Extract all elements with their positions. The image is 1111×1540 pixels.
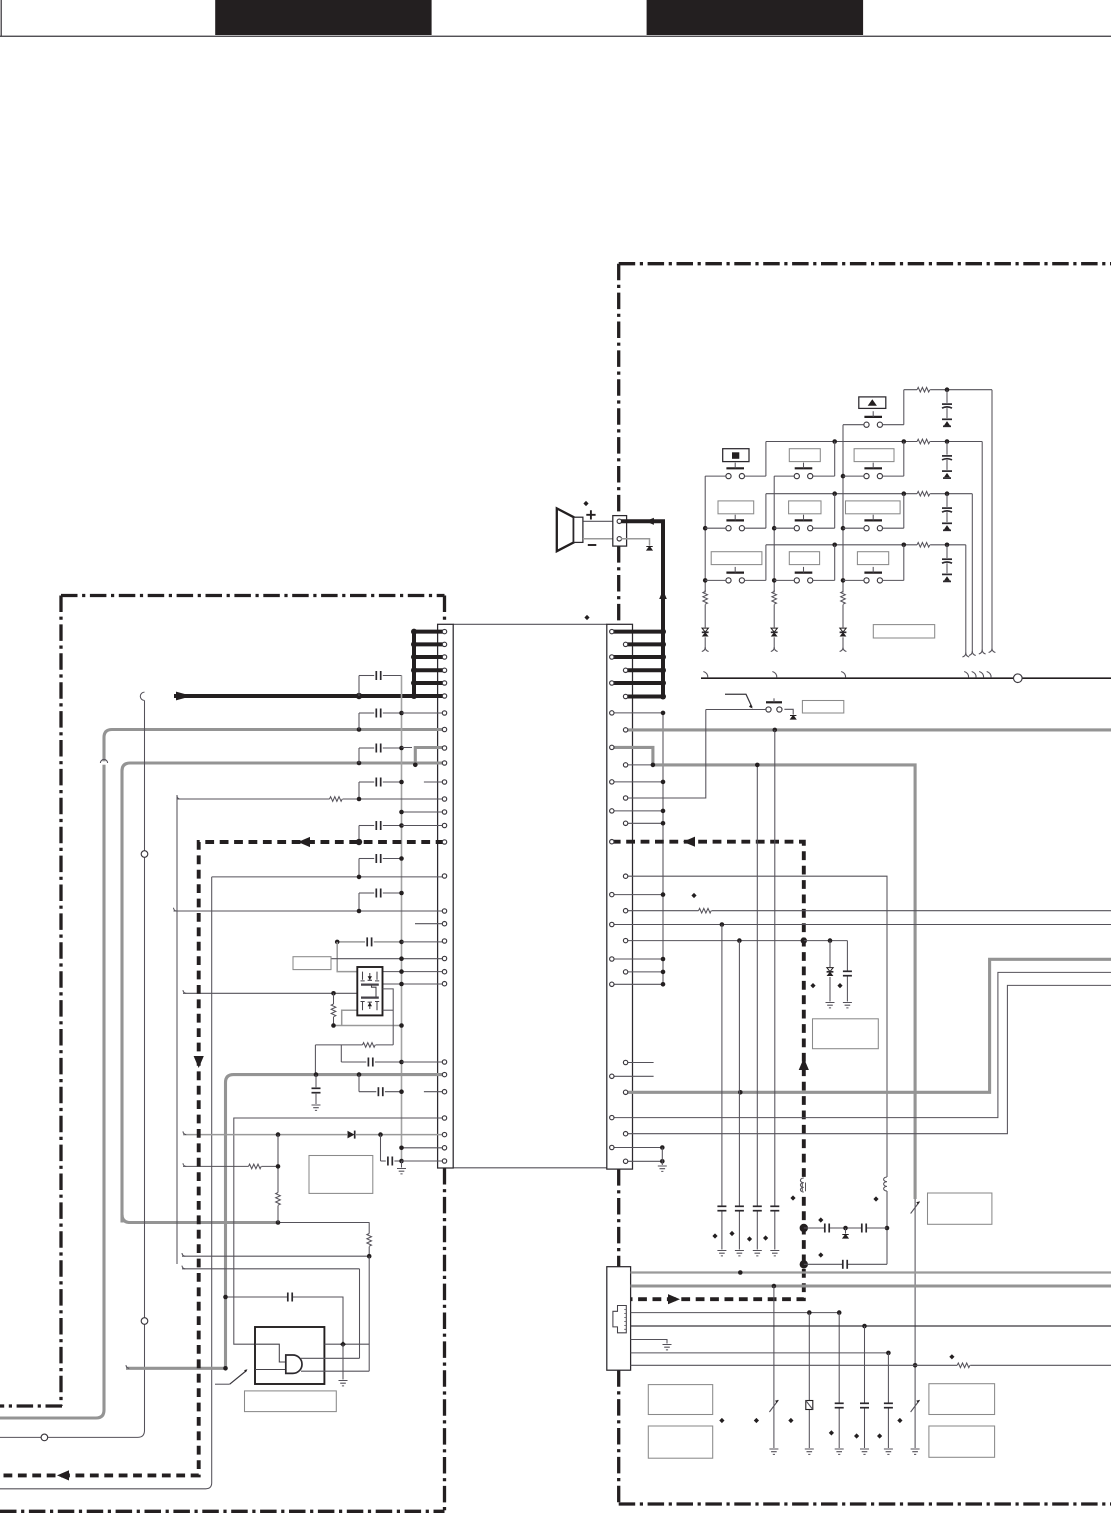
junction xyxy=(357,1072,362,1077)
diamond xyxy=(754,1418,759,1423)
junction xyxy=(411,680,417,686)
resistor below 993 xyxy=(333,993,335,1025)
junction xyxy=(837,1310,842,1315)
diamond xyxy=(747,1236,752,1241)
wire CN1-CN2 bottom link xyxy=(453,1167,607,1169)
switch r2c2 contacts xyxy=(794,474,799,479)
wire CN1 1118 xyxy=(234,1118,445,1344)
wire 1256 xyxy=(182,1255,369,1257)
wire CN3 1352 xyxy=(631,1352,889,1354)
label box xyxy=(929,1384,995,1415)
connector CN3 body xyxy=(607,1267,631,1371)
cap riser 359 xyxy=(358,1075,360,1092)
wire K1 right xyxy=(882,424,904,426)
cap riser xyxy=(358,713,360,730)
board A outline left step xyxy=(0,1404,62,1407)
CN2 pin xyxy=(623,642,627,646)
thick stub CN2 pin 2 xyxy=(626,642,663,646)
connector CN1 body xyxy=(438,624,454,1168)
key label box r3c3 xyxy=(846,501,901,514)
CN1 pin xyxy=(442,681,446,685)
junction xyxy=(399,711,404,716)
junction xyxy=(913,1363,918,1368)
thick stub CN1 pin 2 xyxy=(414,642,445,646)
wire CN2 894 xyxy=(612,894,663,896)
cap riser 341 xyxy=(340,1045,342,1062)
resistor xyxy=(917,541,930,548)
ground xyxy=(911,1449,920,1454)
ground xyxy=(884,1449,893,1454)
diamond xyxy=(873,1196,878,1201)
CN2 pin xyxy=(623,1159,627,1163)
wire 1044 xyxy=(315,1044,393,1046)
U1 top wire xyxy=(324,1343,369,1345)
junction xyxy=(314,1072,319,1077)
wire CN1 782 stub xyxy=(424,781,445,783)
Q1 loop entry xyxy=(383,1009,394,1011)
switch r2c3 actuator xyxy=(864,467,882,469)
junction xyxy=(902,439,907,444)
thick stub CN2 pin 6 xyxy=(626,695,663,699)
column tail xyxy=(704,637,706,647)
CN2 pin xyxy=(610,1145,614,1149)
hook xyxy=(969,651,972,655)
column tail xyxy=(842,637,844,647)
junction xyxy=(651,763,656,768)
transistor array Q1 box xyxy=(357,967,382,1015)
ground xyxy=(717,1251,726,1256)
junction xyxy=(399,1159,404,1164)
junction on dashed xyxy=(356,839,362,845)
CN1 pin xyxy=(442,668,446,672)
CN2 pin xyxy=(610,892,614,896)
wire sw right xyxy=(812,579,834,581)
junction xyxy=(737,938,742,943)
wire CN1 876 xyxy=(212,876,445,878)
cap leg x774.8 xyxy=(774,730,776,1250)
arrowhead up on speaker bus xyxy=(659,590,667,599)
wire CN2 876 down xyxy=(626,876,887,1264)
gray rail wire exits left y1418 xyxy=(0,730,445,1419)
ground drop xyxy=(342,1344,344,1379)
capacitor xyxy=(842,971,853,976)
switch r3c2 actuator xyxy=(795,519,813,521)
arrowhead right on dashed B low xyxy=(668,1294,680,1304)
junction xyxy=(885,1226,890,1231)
junction xyxy=(411,693,417,699)
hook xyxy=(962,653,965,657)
junction xyxy=(660,694,666,700)
CN1 pin xyxy=(442,1159,446,1163)
ground speaker return xyxy=(646,547,652,551)
CN5 pin 2 xyxy=(617,537,621,541)
cap leg x721.9 xyxy=(721,925,723,1250)
junction xyxy=(832,439,837,444)
bus hop xyxy=(703,672,707,678)
junction xyxy=(832,543,837,548)
junction xyxy=(335,940,340,945)
junction xyxy=(399,856,404,861)
junction xyxy=(738,1270,743,1275)
trimmer symbol xyxy=(911,1202,920,1214)
bus hop xyxy=(987,672,991,678)
CN2 pin xyxy=(623,694,627,698)
junction xyxy=(331,991,336,996)
bus hop xyxy=(964,672,968,678)
CN1 pin xyxy=(442,761,446,765)
wire CN1 911 xyxy=(174,910,445,912)
leg 888 xyxy=(887,1353,889,1448)
bus hop xyxy=(972,672,976,678)
key label box r2c1 xyxy=(723,449,749,462)
cap stack xyxy=(946,442,948,455)
junction xyxy=(223,1295,228,1300)
diamond xyxy=(829,1430,834,1435)
cap riser xyxy=(358,676,360,697)
junction xyxy=(661,970,666,975)
wire speaker plus to CN5 xyxy=(583,520,613,522)
diamond xyxy=(818,1252,823,1257)
junction xyxy=(399,1023,404,1028)
row4 drop xyxy=(965,545,967,653)
CN1 pin xyxy=(442,982,446,986)
junction xyxy=(399,746,404,751)
resistor xyxy=(363,1041,376,1048)
wire CN1 748 capside xyxy=(402,747,413,749)
resistor xyxy=(330,796,343,803)
CN2 pin xyxy=(623,909,627,913)
junction xyxy=(399,1146,404,1151)
matrix jog xyxy=(765,494,767,529)
key label box r2c2 xyxy=(789,449,820,462)
junction xyxy=(367,1254,372,1259)
matrix column 2 xyxy=(773,476,775,592)
CN1 pin xyxy=(442,1146,446,1150)
junction xyxy=(357,727,362,732)
ground xyxy=(658,1166,667,1171)
wire CN1 713 xyxy=(402,712,445,714)
thick stub CN1 pin 3 xyxy=(414,655,445,659)
speaker SP1 cone xyxy=(557,508,574,551)
cap riser xyxy=(358,859,360,877)
wire sw left xyxy=(774,527,795,529)
cap branch xyxy=(846,941,848,1002)
wire speaker minus to CN5 xyxy=(583,538,613,540)
junction xyxy=(399,940,404,945)
IC U1 box xyxy=(255,1327,324,1384)
CN1 pin xyxy=(442,1116,446,1120)
leg 839 xyxy=(838,1313,840,1448)
wire CN1 971 xyxy=(383,971,445,973)
junction xyxy=(399,969,404,974)
U1 lower wire xyxy=(301,1370,369,1372)
gray wire CN2 729 to edge xyxy=(626,728,1111,731)
switch S13 lever xyxy=(230,1371,247,1385)
Q1 side pin loop xyxy=(383,989,394,1045)
wire sw right xyxy=(882,579,904,581)
CN1 pin xyxy=(442,823,446,827)
via circle on exit wire xyxy=(41,1434,48,1441)
gray wire CN2 1092 elbow to edge xyxy=(626,959,1111,1092)
label box xyxy=(929,1426,995,1457)
CN1 pin xyxy=(442,970,446,974)
junction xyxy=(399,1060,404,1065)
board A outline left xyxy=(59,596,62,1407)
diamond xyxy=(949,1354,954,1359)
thick stub CN1 pin 1 xyxy=(414,630,445,634)
junction xyxy=(661,809,666,814)
capacitor xyxy=(824,1223,829,1234)
column resistor xyxy=(704,604,706,628)
gray wire CN3 1272 to edge xyxy=(631,1271,1111,1273)
label box xyxy=(928,1193,992,1224)
capacitor row y858.5 xyxy=(359,858,374,860)
wire 1296 cap xyxy=(226,1297,344,1344)
thick vertical bus left xyxy=(412,632,416,696)
stub CN2 959 xyxy=(612,958,663,960)
ground xyxy=(826,1003,835,1008)
bus via circle xyxy=(1014,674,1023,683)
matrix jog xyxy=(834,545,836,581)
switch S12 actuator xyxy=(766,701,782,703)
capacitor xyxy=(883,1403,894,1408)
vertical 757 from row 765 xyxy=(756,765,758,925)
wire S12 right xyxy=(784,709,793,714)
capacitor row 1161 xyxy=(381,1160,386,1162)
thin rail 177 xyxy=(176,795,178,1264)
capacitor xyxy=(769,1206,780,1211)
matrix row wire 2 xyxy=(766,441,982,443)
matrix jog xyxy=(765,442,767,477)
arrowhead up on dashed B xyxy=(799,1058,809,1070)
CN1 pin xyxy=(442,1072,446,1076)
wire 993 to Q1 xyxy=(183,992,357,994)
switch K1 actuator xyxy=(864,416,882,418)
ground xyxy=(312,1105,321,1110)
resistor xyxy=(917,386,930,393)
junction xyxy=(661,982,666,987)
vertical bus 663 xyxy=(662,713,664,984)
CN2 pin xyxy=(623,668,627,672)
label box xyxy=(648,1385,712,1415)
CN1 pin xyxy=(442,874,446,878)
diamond xyxy=(691,893,696,898)
thin rail 144 xyxy=(0,701,145,1438)
capacitor xyxy=(834,1403,845,1408)
wire cap pair 1228 xyxy=(804,1227,887,1229)
CN1 pin xyxy=(442,810,446,814)
wire CN1 812 xyxy=(402,811,445,813)
leg 774 lower xyxy=(773,1286,775,1448)
arrowhead left on speaker wire xyxy=(646,518,654,525)
cap riser xyxy=(358,893,360,911)
CN1 pin xyxy=(442,655,446,659)
junction xyxy=(772,526,777,531)
junction xyxy=(276,1164,281,1169)
capacitor xyxy=(287,1292,292,1303)
CN2 pin xyxy=(623,763,627,767)
ground xyxy=(769,1449,778,1454)
junction xyxy=(862,1324,867,1329)
CN2 pin xyxy=(623,796,627,800)
wire CN2 1133 elbow to edge xyxy=(626,985,1111,1133)
CN1 pin xyxy=(442,840,446,844)
diamond xyxy=(897,1418,902,1423)
junction xyxy=(660,1145,665,1150)
redaction bar 2 xyxy=(647,0,864,35)
matrix jog xyxy=(903,442,905,477)
CN2 pin xyxy=(610,655,614,659)
capacitor row y893 xyxy=(359,892,374,894)
junction xyxy=(223,1366,228,1371)
wire sw left xyxy=(705,475,726,477)
leg 864 xyxy=(864,1326,866,1448)
switch r4c1 contacts xyxy=(726,578,731,583)
CN3 plug glyph xyxy=(613,1306,626,1333)
junction xyxy=(902,543,907,548)
page left edge tick xyxy=(0,0,2,36)
diamond xyxy=(837,983,842,988)
stub CN2 1062 xyxy=(626,1062,654,1064)
cap riser xyxy=(358,748,360,763)
dashed remote wire B xyxy=(612,842,804,1299)
CN2 pin xyxy=(610,1074,614,1078)
test point diamond xyxy=(584,615,589,620)
diamond xyxy=(854,1433,859,1438)
column resistor xyxy=(842,604,844,628)
wire K1 left xyxy=(843,424,864,426)
wire CN3 1312 xyxy=(631,1312,840,1314)
key label box K1 xyxy=(859,397,886,409)
resistor xyxy=(275,1193,282,1206)
hook xyxy=(979,650,982,654)
wire sw right xyxy=(882,527,904,529)
diamond xyxy=(763,1235,768,1240)
zener branch xyxy=(829,941,831,1002)
CN2 pin xyxy=(623,970,627,974)
hook xyxy=(840,647,843,651)
capacitor row 1062 xyxy=(341,1061,366,1063)
junction xyxy=(276,1132,281,1137)
wire CN3 1326 to edge xyxy=(631,1325,1111,1327)
junction xyxy=(832,491,837,496)
U1 input wiring xyxy=(255,1344,286,1362)
cap stack xyxy=(946,390,948,403)
row1 jog xyxy=(903,390,905,425)
row1 drop xyxy=(991,390,993,649)
arrowhead left on dashed A exit xyxy=(57,1470,69,1480)
wire CN1 958 xyxy=(331,958,445,960)
switch r3c3 contacts xyxy=(864,526,869,531)
junction xyxy=(357,909,362,914)
column diode xyxy=(770,628,778,638)
trimmer slash xyxy=(769,1400,778,1412)
board B outline left seg4 xyxy=(617,1370,620,1504)
zener diode xyxy=(826,967,834,977)
curl xyxy=(177,796,180,799)
stub CN2 1147 xyxy=(612,1147,663,1149)
junction xyxy=(801,937,807,943)
board B outline top xyxy=(619,262,1111,265)
ground xyxy=(860,1449,869,1454)
switch K1 contacts xyxy=(864,422,869,427)
junction xyxy=(399,810,404,815)
junction xyxy=(661,892,666,897)
junction xyxy=(843,1226,848,1231)
junction xyxy=(841,578,846,583)
CN2 pin xyxy=(610,1115,614,1119)
wire trimmer down xyxy=(914,1199,916,1448)
curl xyxy=(183,1131,186,1134)
junction xyxy=(661,821,666,826)
stub CN2 781 xyxy=(612,781,663,783)
wire sw right xyxy=(744,475,766,477)
junction xyxy=(841,474,846,479)
wire CN3 1365 to edge xyxy=(631,1364,1111,1366)
board A outline right upper xyxy=(443,596,446,625)
wire CN2 1117 elbow to edge xyxy=(612,972,1111,1117)
hook xyxy=(702,647,705,651)
resistor xyxy=(366,1234,373,1247)
CN1 pin xyxy=(442,746,446,750)
junction xyxy=(772,1284,777,1289)
test point diamond xyxy=(583,501,588,506)
curl xyxy=(126,1365,129,1368)
row2 drop xyxy=(981,442,983,651)
board A outline right lower xyxy=(443,1168,446,1511)
cap leg x757.3 xyxy=(756,925,758,1250)
stub CN2 712 xyxy=(612,712,663,714)
CN1 pin xyxy=(442,909,446,913)
wire S12 left xyxy=(706,709,766,711)
CN1 pin xyxy=(442,711,446,715)
hook xyxy=(989,648,992,652)
redaction bar 1 xyxy=(215,0,431,35)
CN2 pin xyxy=(623,1060,627,1064)
cap leg x739.4 xyxy=(738,941,740,1250)
wire CN1 1160 xyxy=(402,1160,445,1162)
bus hop xyxy=(979,672,983,678)
vert 278 with resistor xyxy=(277,1135,279,1223)
wire sw right xyxy=(744,579,766,581)
dashed remote wire A xyxy=(0,842,445,1475)
switch r3c1 actuator xyxy=(726,519,744,521)
junction xyxy=(800,1260,808,1268)
junction xyxy=(357,761,362,766)
capacitor xyxy=(859,1403,870,1408)
junction xyxy=(886,1351,891,1356)
switch r2c1 contacts xyxy=(726,474,731,479)
junction xyxy=(399,1089,404,1094)
diamond xyxy=(729,1231,734,1236)
capacitor xyxy=(734,1206,745,1211)
matrix row wire 4 xyxy=(766,544,966,546)
junction xyxy=(411,667,417,673)
junction xyxy=(411,641,417,647)
ground stub xyxy=(845,1228,847,1234)
diamond xyxy=(719,1418,724,1423)
CN1 pin xyxy=(442,694,446,698)
leg 809 xyxy=(808,1313,810,1448)
CN2 pin xyxy=(610,629,614,633)
resistor xyxy=(957,1362,970,1369)
wire CN5 pin2 ground xyxy=(621,539,650,546)
junction xyxy=(357,875,362,880)
junction xyxy=(660,641,666,647)
arrowhead left on dashed A xyxy=(298,837,310,847)
label box xyxy=(293,957,331,970)
wire CN1 825 xyxy=(402,825,445,827)
